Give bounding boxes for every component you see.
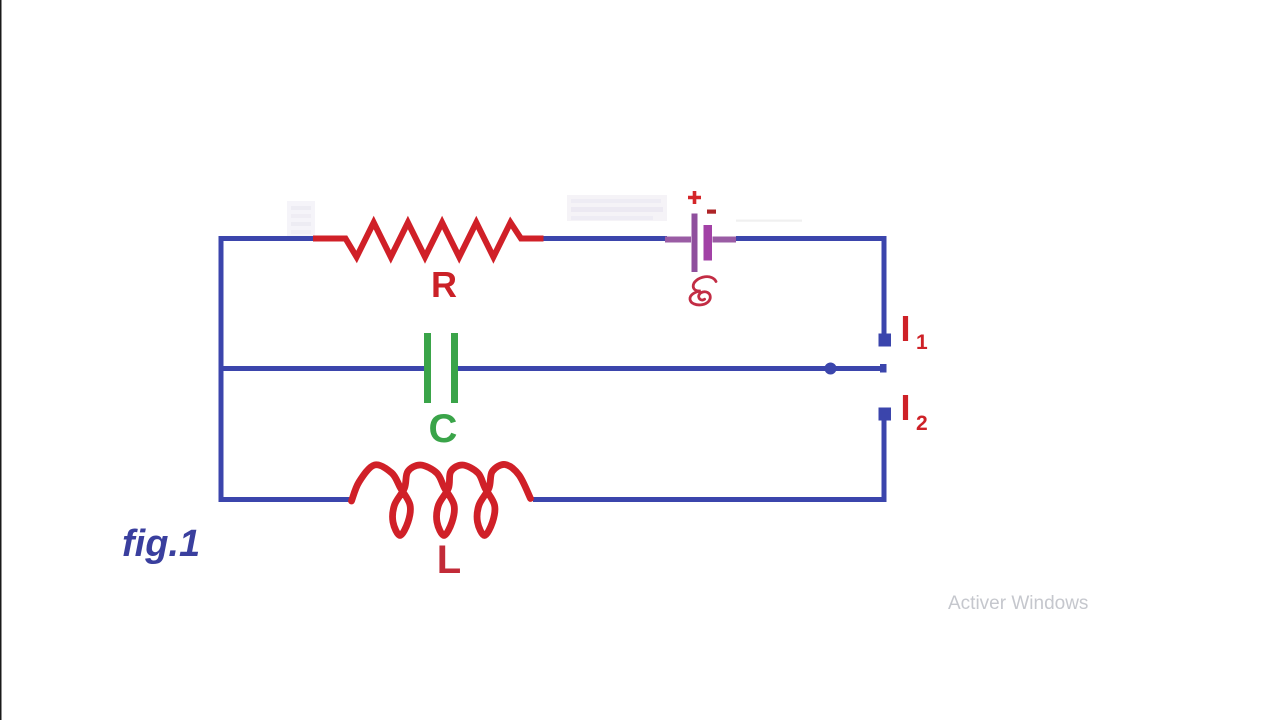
wire: left vertical side — [219, 236, 224, 502]
watermark faint line right of battery — [736, 220, 802, 222]
svg-text:2: 2 — [916, 412, 928, 435]
svg-text:fig.1: fig.1 — [122, 523, 200, 565]
watermark smudge left of battery — [567, 195, 667, 221]
wire: right vertical, top corner down to switch terminal I1 — [882, 236, 887, 334]
svg-text:I: I — [901, 387, 911, 428]
battery short plate (-) — [704, 225, 713, 261]
capacitor C left plate — [424, 333, 431, 403]
capacitor C right plate — [451, 333, 458, 403]
battery polarity plus sign — [688, 191, 701, 204]
switch terminal square I2 — [879, 408, 892, 421]
svg-text:Activer Windows: Activer Windows — [948, 593, 1088, 614]
wire: top side, right of battery — [736, 236, 886, 241]
inductor L (coil) — [352, 464, 531, 535]
wire: stub at end of middle branch — [880, 364, 887, 373]
wire: top side, left segment — [219, 236, 317, 241]
svg-text:I: I — [901, 308, 911, 349]
left black edge line — [0, 0, 2, 720]
svg-text:L: L — [437, 538, 461, 582]
node: junction dot on middle branch — [825, 363, 837, 375]
label ε (EMF) — [690, 277, 716, 305]
battery lead (purple) right — [713, 237, 737, 243]
wire: bottom side, right of inductor — [533, 497, 887, 502]
wire: right vertical, from switch terminal I2 down to bottom corner — [882, 419, 887, 502]
resistor R (zigzag) — [313, 223, 544, 258]
battery polarity minus sign — [707, 210, 716, 214]
svg-text:1: 1 — [916, 331, 928, 354]
wire: top side, between resistor and battery — [543, 236, 667, 241]
battery lead (purple) left — [665, 237, 691, 243]
svg-text:R: R — [431, 264, 457, 305]
battery long plate (+) — [692, 214, 698, 273]
svg-text:C: C — [429, 407, 458, 451]
switch terminal square I1 — [879, 334, 892, 347]
wire: middle branch, capacitor to switch blade — [458, 366, 883, 371]
wire: bottom side, left of inductor — [219, 497, 351, 502]
watermark smudge left of resistor — [287, 201, 315, 236]
wire: middle branch (capacitor branch) — [223, 366, 425, 371]
